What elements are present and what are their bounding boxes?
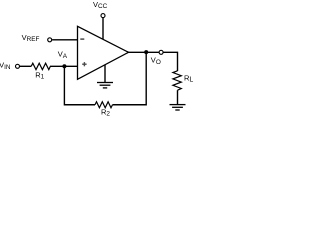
ground under RL (170, 105, 186, 110)
wire VREF to inverting input (52, 39, 77, 41)
node VREF terminal circle (48, 38, 52, 42)
node VA junction dot (62, 64, 66, 68)
op-amp U1 inverting input marker - (80, 38, 84, 40)
wire R2 to output node (113, 52, 147, 105)
node VIN terminal circle (16, 64, 20, 68)
wire R1 to non-inverting input (50, 65, 78, 67)
resistor R2 (95, 102, 113, 108)
node output junction dot (144, 50, 148, 54)
wire op-amp bottom to ground (104, 65, 106, 82)
op-amp U1 (78, 26, 129, 79)
wire VO to RL (163, 52, 177, 71)
op-amp U1 non-inverting input marker + (82, 62, 86, 66)
wire feedback VA down and right to R2 (64, 66, 95, 104)
wire op-amp output (129, 51, 160, 53)
ground under op-amp (97, 83, 113, 88)
wire VIN to R1 (20, 65, 31, 67)
node VO terminal circle (159, 50, 163, 54)
node VCC terminal circle (101, 14, 105, 18)
wire RL to ground (177, 90, 179, 104)
wire VCC to op-amp top (102, 18, 104, 39)
resistor RL (173, 71, 181, 90)
resistor R1 (31, 63, 50, 69)
